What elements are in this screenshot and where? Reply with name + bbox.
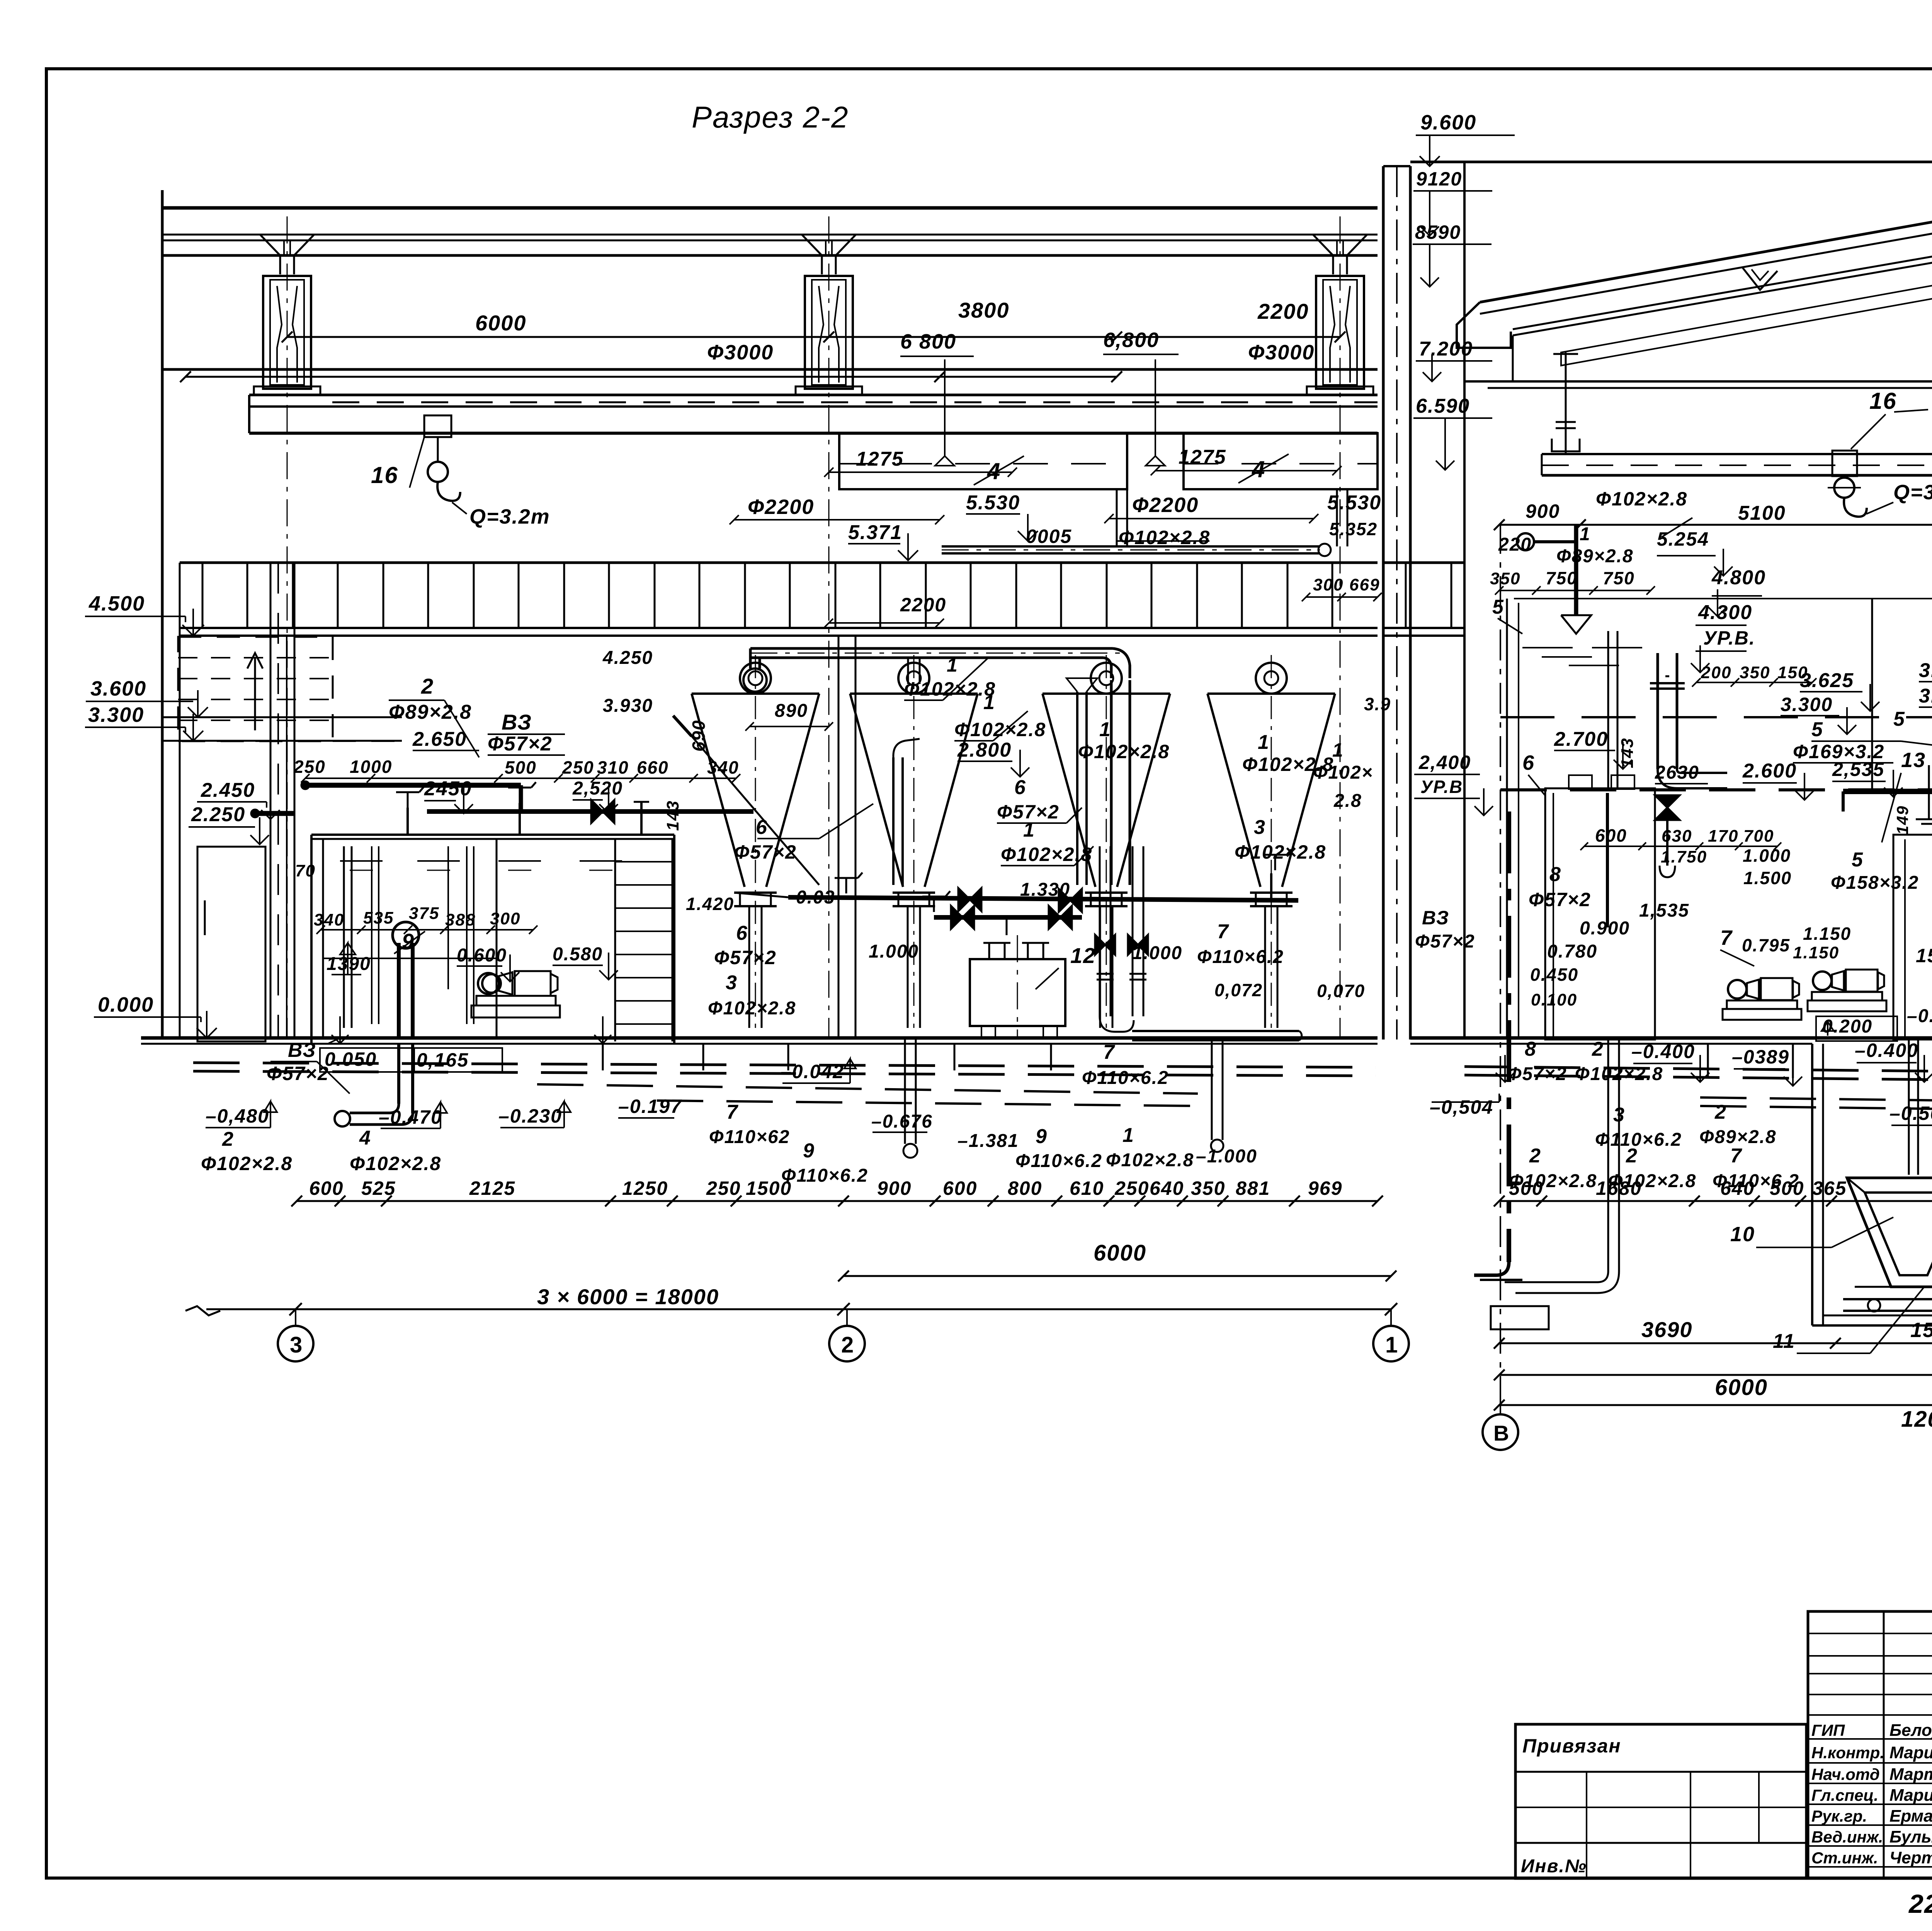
svg-text:Инв.№: Инв.№ [1521,1856,1587,1877]
svg-text:Марионков: Марионков [1889,1786,1932,1805]
svg-text:11: 11 [1773,1330,1795,1353]
svg-text:2630: 2630 [1655,762,1699,783]
svg-text:1250: 1250 [622,1177,668,1199]
svg-text:200: 200 [1701,663,1731,682]
svg-text:2.8: 2.8 [1333,791,1362,811]
svg-text:2.250: 2.250 [191,803,245,826]
svg-text:5: 5 [1893,708,1905,730]
svg-text:250: 250 [293,757,326,777]
svg-text:0.780: 0.780 [1547,941,1597,962]
svg-text:0,072: 0,072 [1214,980,1263,1000]
svg-text:–0.470: –0.470 [379,1106,442,1128]
svg-text:610: 610 [1070,1177,1104,1199]
overhead distribution pipe f102x2.8 [750,647,1113,650]
svg-text:1: 1 [1385,1332,1398,1358]
column at axis 3 [270,563,272,1040]
svg-text:535: 535 [363,909,394,927]
svg-text:ГИП: ГИП [1811,1721,1845,1739]
svg-text:700: 700 [1743,827,1774,846]
svg-text:Ф102×2.8: Ф102×2.8 [1235,841,1326,863]
left wall of building [161,190,164,1040]
svg-text:–0,504: –0,504 [1430,1096,1493,1118]
underfloor dashed pipes right [1464,1067,1932,1078]
svg-text:–0.197: –0.197 [618,1096,682,1117]
svg-text:–0.250: –0.250 [1907,1006,1932,1026]
svg-text:3: 3 [726,971,738,994]
drop at 2356 to -1.381 [904,1040,906,1144]
hanger rods [1565,352,1567,454]
svg-text:2,400: 2,400 [1418,752,1471,773]
svg-text:600: 600 [943,1177,977,1199]
svg-text:365: 365 [1812,1177,1847,1199]
svg-text:Вед.инж.: Вед.инж. [1811,1828,1883,1846]
sludge pit and hopper 10 [1811,1044,1813,1325]
signature table [1808,1611,1932,1878]
svg-text:Ф102×: Ф102× [1313,762,1373,783]
water level marks tank5 [1522,647,1573,648]
svg-text:Ф102×2.8: Ф102×2.8 [1078,741,1170,762]
svg-text:2: 2 [222,1128,234,1150]
svg-text:Мартынов: Мартынов [1889,1765,1932,1784]
middle wall between sections [1382,166,1385,1040]
svg-text:–0.400: –0.400 [1631,1041,1695,1062]
svg-text:Ф57×2: Ф57×2 [1507,1064,1567,1084]
svg-text:0,165: 0,165 [417,1049,469,1071]
svg-text:9: 9 [1036,1125,1048,1148]
svg-text:0.600: 0.600 [457,945,507,966]
svg-text:143: 143 [663,800,682,831]
overhead pipe f102 at +5.3 [942,545,1320,548]
svg-text:15: 15 [1916,945,1932,966]
thick pipe feed to tank8 [1843,789,1932,794]
main left tank [311,834,674,836]
svg-text:350: 350 [1490,569,1520,588]
svg-text:1680: 1680 [1596,1177,1642,1199]
svg-text:6: 6 [1522,751,1535,774]
svg-text:2.450: 2.450 [201,779,255,801]
svg-text:149: 149 [1893,805,1912,835]
svg-text:Ф57×2: Ф57×2 [734,841,797,863]
svg-text:ВЗ: ВЗ [1422,907,1449,929]
svg-text:Ф102×2.8: Ф102×2.8 [201,1153,293,1174]
svg-text:3.300: 3.300 [1919,659,1932,682]
svg-text:Привязан: Привязан [1522,1735,1621,1757]
svg-text:2200: 2200 [900,594,946,616]
gable roof truss [1480,212,1932,302]
svg-text:1: 1 [1099,718,1111,741]
svg-text:Ф110×6.2: Ф110×6.2 [781,1165,868,1186]
svg-text:1000: 1000 [350,757,392,777]
svg-text:2: 2 [1714,1101,1727,1123]
svg-text:0.580: 0.580 [553,944,603,965]
svg-text:7: 7 [1103,1041,1115,1063]
svg-text:2: 2 [841,1332,854,1358]
svg-text:900: 900 [877,1177,912,1199]
svg-text:350: 350 [1740,663,1770,682]
roof column at x=3468 [1313,235,1333,274]
thick VZ dashdot pipe drop left [1507,812,1511,1262]
svg-text:300: 300 [1313,575,1344,594]
svg-text:–0,480: –0,480 [206,1105,269,1127]
svg-text:ВЗ: ВЗ [502,710,532,734]
svg-text:–0.042: –0.042 [781,1061,844,1082]
svg-text:2200: 2200 [1257,299,1309,323]
hopper carriage [1855,1286,1932,1288]
pipe row with valves to tank 12 [934,915,1082,920]
svg-text:12: 12 [1070,943,1096,968]
tank 5 walls [1514,598,1932,599]
svg-text:6: 6 [1014,776,1026,799]
tank 6 [1545,788,1655,1040]
svg-text:3690: 3690 [1641,1317,1693,1342]
pump unit 9 (left) [478,973,499,994]
svg-text:–0.230: –0.230 [498,1105,562,1127]
svg-text:16: 16 [1869,388,1897,414]
svg-text:–0389: –0389 [1732,1046,1789,1068]
svg-text:340: 340 [314,910,344,929]
slanted hose left cyclone [680,723,819,885]
svg-text:6.590: 6.590 [1416,395,1470,417]
dashed water level 2.400 [1500,788,1932,791]
discharge pipes into pit [1908,1040,1910,1175]
svg-text:3.9: 3.9 [1364,694,1391,714]
svg-text:3.600: 3.600 [1919,685,1932,707]
svg-text:1: 1 [1580,524,1591,544]
svg-text:3.930: 3.930 [603,696,653,716]
svg-text:1: 1 [1122,1124,1134,1147]
svg-text:2: 2 [1626,1145,1638,1167]
svg-text:5: 5 [1852,849,1864,871]
svg-text:Ф3000: Ф3000 [1248,341,1315,364]
svg-text:170: 170 [1708,827,1738,846]
svg-text:Чертков: Чертков [1889,1848,1932,1867]
svg-text:600: 600 [1595,825,1627,846]
svg-text:1500: 1500 [746,1177,792,1199]
svg-text:1.420: 1.420 [686,894,734,914]
stairs (dashed) [178,637,333,741]
svg-text:1,535: 1,535 [1639,900,1689,921]
svg-text:4.800: 4.800 [1711,567,1766,589]
svg-text:2125: 2125 [469,1177,515,1199]
svg-text:375: 375 [409,904,439,923]
column at axis 2 [838,636,840,1038]
svg-text:Ф102×2.8: Ф102×2.8 [708,998,796,1019]
svg-text:Разрез 2-2: Разрез 2-2 [692,100,849,134]
hydrocyclone at 2365 [898,663,929,694]
svg-text:ВЗ: ВЗ [288,1039,316,1062]
hydrocyclone at 1955 [740,663,771,694]
roof column at x=2145 [802,235,822,274]
svg-text:1: 1 [1332,739,1344,761]
svg-text:2450: 2450 [424,778,472,800]
svg-text:Ф102×2.8: Ф102×2.8 [1596,488,1687,510]
svg-text:Ф102×2.8: Ф102×2.8 [904,678,996,700]
svg-text:5: 5 [1492,596,1504,618]
svg-text:6000: 6000 [475,311,527,335]
svg-text:750: 750 [1603,568,1635,588]
svg-text:2,520: 2,520 [572,778,623,799]
svg-text:1275: 1275 [1179,446,1226,468]
door at left wall [197,847,265,1041]
svg-text:3: 3 [1613,1104,1625,1126]
crane hook trolley right [1832,451,1857,476]
svg-text:–0.500: –0.500 [1889,1102,1932,1124]
svg-text:Ф3000: Ф3000 [707,341,774,364]
svg-text:УР.В.: УР.В. [1703,627,1755,649]
svg-text:881: 881 [1236,1177,1270,1199]
svg-text:969: 969 [1308,1177,1342,1199]
svg-text:2.800: 2.800 [957,739,1012,761]
svg-text:8: 8 [1549,863,1561,886]
svg-text:Ф110×6.2: Ф110×6.2 [1197,947,1284,967]
svg-text:2.700: 2.700 [1554,728,1608,750]
svg-text:5.371: 5.371 [848,521,902,544]
svg-text:–1.000: –1.000 [1196,1146,1257,1167]
svg-text:10: 10 [1730,1223,1755,1246]
risers under floor right [1707,1044,1709,1078]
svg-text:1: 1 [1023,819,1035,841]
svg-text:0,070: 0,070 [1317,981,1365,1001]
svg-text:3.600: 3.600 [90,677,146,700]
svg-text:Ф102×2.8: Ф102×2.8 [1575,1064,1663,1084]
floor line 0.000 [141,1036,1378,1040]
svg-text:Q=3.2т: Q=3.2т [469,505,550,528]
crane beam right section [1542,453,1932,455]
svg-text:1.000: 1.000 [1132,943,1182,963]
svg-text:4.300: 4.300 [1698,601,1752,624]
svg-text:Ф110×6.2: Ф110×6.2 [1015,1151,1102,1171]
svg-text:250: 250 [562,757,594,778]
svg-text:–1.381: –1.381 [957,1131,1019,1151]
floor slab band with ticks (left section) [180,561,1378,564]
small risers under floor [602,1044,604,1070]
svg-text:0.450: 0.450 [1530,965,1578,985]
svg-text:Ф102×2.8: Ф102×2.8 [350,1153,441,1174]
svg-text:0.03: 0.03 [796,887,835,908]
underfloor pipes (dashed) left section [193,1063,1376,1067]
svg-text:250: 250 [706,1177,741,1199]
svg-text:0.000: 0.000 [98,993,154,1016]
floor line right section [1410,1036,1932,1040]
svg-text:1390: 1390 [327,954,371,974]
svg-text:1.750: 1.750 [1661,847,1707,866]
svg-text:1550: 1550 [1910,1319,1932,1342]
svg-text:Ф102×2.8: Ф102×2.8 [954,719,1046,740]
svg-text:Ф57×2: Ф57×2 [1529,889,1591,910]
hopper trapezoid [1847,1178,1932,1287]
svg-text:13: 13 [1901,749,1926,772]
svg-text:1275: 1275 [856,448,904,470]
svg-text:В: В [1493,1421,1510,1445]
svg-text:2: 2 [421,674,434,698]
svg-text:1: 1 [1258,731,1270,754]
drop with elbow to -0.470 [397,1044,400,1104]
svg-text:Ф57×2: Ф57×2 [714,947,777,968]
pumps right section [1728,980,1747,999]
svg-text:3.300: 3.300 [1781,694,1833,715]
hydrocyclone at 3290 [1256,663,1287,694]
svg-text:9: 9 [803,1140,815,1162]
svg-text:1.150: 1.150 [1793,943,1839,962]
svg-text:Ст.инж.: Ст.инж. [1811,1849,1878,1867]
hydrocyclone at 2863 [1091,663,1122,694]
svg-text:500: 500 [505,757,537,778]
tank 12 [970,959,1065,1026]
svg-text:2.600: 2.600 [1742,760,1797,782]
ceiling line right section [1464,380,1932,383]
bottom collection pipe (slope 0.03) [734,893,788,897]
svg-text:9120: 9120 [1416,168,1462,190]
svg-text:388: 388 [445,910,476,929]
svg-text:669: 669 [1349,575,1380,594]
svg-text:Ф158×3.2: Ф158×3.2 [1831,873,1919,893]
svg-text:2: 2 [1529,1145,1541,1167]
svg-text:6000: 6000 [1715,1375,1768,1400]
svg-text:Ф110×6.2: Ф110×6.2 [1595,1130,1682,1150]
svg-text:Ф102×2.8: Ф102×2.8 [1119,527,1210,548]
svg-text:Ф89×2.8: Ф89×2.8 [389,701,472,723]
left small table (Privyazan) [1515,1724,1806,1878]
svg-text:6000: 6000 [1094,1240,1146,1266]
svg-text:4.500: 4.500 [88,592,145,615]
svg-text:3: 3 [1254,816,1266,839]
svg-text:Булычева: Булычева [1889,1827,1932,1846]
hot water / VZ pipes above tank [305,783,521,788]
svg-text:660: 660 [637,757,669,778]
signatures scribbles [1515,1724,1932,1905]
svg-text:2.650: 2.650 [412,728,467,750]
svg-text:70: 70 [295,861,316,880]
duct plates 4 below beam [839,433,1127,489]
svg-text:Ф2200: Ф2200 [1132,493,1199,517]
svg-text:2: 2 [1592,1038,1604,1060]
svg-text:УР.В: УР.В [1420,777,1463,797]
svg-text:1: 1 [947,654,958,676]
svg-text:630: 630 [1662,827,1692,846]
svg-text:0.900: 0.900 [1580,918,1630,939]
svg-text:6: 6 [756,816,768,839]
svg-text:690: 690 [689,720,709,752]
svg-text:640: 640 [1720,1177,1755,1199]
tank 13 (right of tank5) [1893,835,1932,1040]
svg-text:500: 500 [1509,1177,1543,1199]
svg-text:7: 7 [1720,926,1733,949]
svg-text:6 800: 6 800 [900,330,956,353]
svg-text:5100: 5100 [1738,502,1786,524]
svg-text:Ермакова: Ермакова [1889,1807,1932,1826]
svg-text:0.050: 0.050 [325,1048,377,1070]
svg-text:3: 3 [290,1332,303,1358]
shower pipe and funnel [1574,525,1578,615]
crane hook trolley 16 [424,415,451,437]
svg-text:Нач.отд: Нач.отд [1811,1765,1880,1783]
svg-text:890: 890 [775,701,808,721]
svg-text:600: 600 [309,1177,344,1199]
svg-text:1.000: 1.000 [869,941,919,962]
svg-text:1.500: 1.500 [1743,868,1792,888]
svg-text:1.150: 1.150 [1803,924,1851,944]
roof column at x=743 [260,235,280,274]
svg-text:16: 16 [371,462,398,488]
svg-text:Белоус: Белоус [1889,1721,1932,1740]
svg-text:3 × 6000 = 18000: 3 × 6000 = 18000 [537,1284,719,1309]
column axes circles 3 2 1 [295,1309,296,1326]
svg-text:6,800: 6,800 [1103,328,1159,352]
svg-text:7: 7 [1217,920,1229,943]
svg-text:–0.676: –0.676 [871,1111,933,1132]
svg-text:350: 350 [1191,1177,1225,1199]
svg-text:500: 500 [1770,1177,1804,1199]
svg-text:5.530: 5.530 [1327,492,1381,514]
drop at 3150 to -1.000 [1211,1040,1213,1140]
svg-text:8590: 8590 [1415,221,1461,243]
svg-text:220: 220 [1498,534,1532,555]
double drain pipes with U bend [1099,846,1101,1016]
svg-text:Ф89×2.8: Ф89×2.8 [1556,546,1634,567]
svg-text:3800: 3800 [958,298,1010,322]
svg-text:9.600: 9.600 [1420,111,1476,134]
svg-text:900: 900 [1526,500,1560,522]
svg-text:5.530: 5.530 [966,492,1020,514]
svg-text:0.100: 0.100 [1531,990,1577,1009]
roof slab lines section 2-2 [162,206,1378,210]
svg-text:Н.контр.: Н.контр. [1811,1744,1884,1762]
svg-text:Ф110×62: Ф110×62 [709,1127,790,1147]
svg-text:5.254: 5.254 [1657,528,1709,550]
svg-text:3.625: 3.625 [1800,669,1854,692]
svg-text:4: 4 [359,1127,371,1149]
svg-text:1.000: 1.000 [1743,846,1791,866]
svg-text:310: 310 [597,757,629,778]
svg-text:Ф2200: Ф2200 [748,495,814,519]
svg-text:7: 7 [726,1101,738,1123]
svg-text:Ф169×3.2: Ф169×3.2 [1793,741,1884,762]
svg-text:Q=3.2т: Q=3.2т [1893,481,1932,504]
svg-text:3.300: 3.300 [88,703,144,726]
svg-text:800: 800 [1008,1177,1042,1199]
svg-text:4.250: 4.250 [602,648,653,668]
svg-text:1.330: 1.330 [1020,880,1070,900]
svg-text:6: 6 [736,922,748,944]
svg-text:Ф57×2: Ф57×2 [488,733,553,755]
svg-text:12000: 12000 [1901,1407,1932,1432]
vertical pipe with elbow (f169) [1656,653,1659,769]
svg-text:Рук.гр.: Рук.гр. [1811,1807,1867,1825]
svg-text:0.200: 0.200 [1822,1016,1872,1037]
svg-text:Гл.спец.: Гл.спец. [1811,1786,1878,1804]
feeder drops to cyclones [907,658,909,684]
svg-text:Ф110×6.2: Ф110×6.2 [1082,1068,1169,1088]
svg-text:Ф102×2.8: Ф102×2.8 [1106,1150,1194,1171]
right building top slab [1410,161,1932,163]
axes circles B, Б, A [1500,1405,1501,1414]
svg-text:750: 750 [1546,568,1578,588]
crane runway beam 2-2 [249,394,1378,396]
svg-text:7: 7 [1730,1145,1742,1167]
svg-text:0.795: 0.795 [1742,935,1790,955]
svg-text:8: 8 [1525,1038,1537,1060]
svg-text:5: 5 [1811,718,1823,741]
svg-text:640: 640 [1150,1177,1184,1199]
svg-text:Марионков: Марионков [1889,1743,1932,1762]
svg-text:22529-02: 22529-02 [1908,1889,1932,1919]
svg-text:Ф57×2: Ф57×2 [1415,931,1475,952]
